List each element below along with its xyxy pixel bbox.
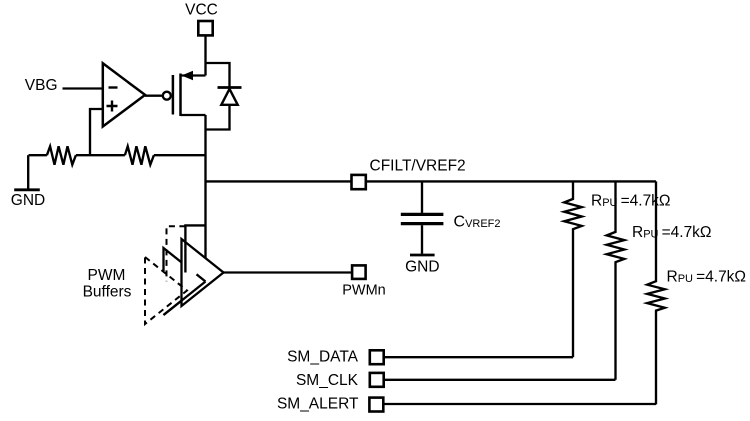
svg-text:SM_CLK: SM_CLK: [296, 372, 359, 389]
wire: body diode branch bottom: [206, 105, 230, 130]
svg-text:RPU =4.7kΩ: RPU =4.7kΩ: [591, 193, 671, 210]
PWM buffer (middle instance) bottom edge: [164, 282, 206, 316]
wire: GND leg to divider resistor: [29, 154, 47, 156]
SM_DATA terminal pin: [370, 350, 384, 364]
svg-text:VCC: VCC: [185, 2, 218, 19]
ground (capacitor): [410, 254, 435, 257]
wire: buffer output to PWMn pin: [224, 271, 353, 273]
wire: op-amp output to gate bubble: [145, 95, 163, 97]
op-amp U1 (VBG error amplifier): [103, 63, 145, 126]
wire: node to CFILT/VREF2 pin: [206, 180, 352, 182]
PWM buffer (back instance, dashed): [145, 257, 187, 324]
wire: RPU3 to SM_ALERT pin: [384, 403, 656, 405]
transistor Q1 source lead: [181, 74, 206, 76]
svg-text:RPU =4.7kΩ: RPU =4.7kΩ: [632, 224, 712, 241]
SM_CLK terminal pin: [370, 373, 384, 387]
op-amp non-inverting input marker: [107, 101, 118, 112]
transistor Q1 (PMOS) gate line: [172, 75, 175, 115]
wire: capacitor stub top: [421, 181, 423, 213]
pull-up resistor RPU3: [647, 181, 665, 404]
resistor (divider, lower): [47, 146, 76, 164]
svg-text:VBG: VBG: [25, 77, 58, 94]
body diode cathode bar: [218, 86, 242, 89]
pull-up resistor RPU1: [564, 181, 582, 357]
VCC terminal pin: [198, 21, 212, 35]
capacitor CVREF2 top plate: [401, 213, 444, 216]
wire: drain vertical to buffer input: [204, 115, 206, 260]
svg-text:RPU =4.7kΩ: RPU =4.7kΩ: [667, 269, 747, 286]
wire: non-inverting input to feedback node: [90, 109, 103, 155]
wire: VCC pin to PMOS source: [204, 36, 206, 76]
transistor Q1 drain lead: [181, 114, 206, 116]
wire: body diode branch top: [206, 63, 230, 88]
svg-text:PWM: PWM: [88, 267, 126, 284]
PWM buffer (front instance): [182, 239, 224, 306]
wire: buffer input jog (front): [185, 225, 205, 272]
svg-text:Buffers: Buffers: [83, 284, 132, 301]
PWM buffer (middle instance) apex segment: [197, 274, 206, 281]
wire: VBG to inverting input: [63, 87, 103, 89]
wire: CFILT/VREF2 pin to pull-up rail: [366, 180, 656, 182]
wire: buffer input jog (middle, dashed): [167, 226, 186, 281]
svg-text:GND: GND: [405, 259, 439, 276]
svg-text:GND: GND: [11, 192, 45, 209]
SM_ALERT terminal pin: [369, 398, 383, 412]
svg-text:CVREF2: CVREF2: [454, 214, 501, 231]
transistor Q1 channel line: [179, 74, 182, 117]
PWMn terminal pin: [352, 265, 366, 279]
wire: feedback resistor to PMOS drain node: [154, 154, 206, 156]
CFILT/VREF2 terminal pin: [352, 175, 366, 189]
wire: capacitor to ground: [421, 225, 423, 254]
wire: RPU1 to SM_DATA pin: [385, 356, 574, 358]
wire: divider mid node: [76, 154, 125, 156]
PMOS gate inversion bubble: [163, 92, 171, 100]
pull-up resistor RPU2: [607, 181, 625, 379]
resistor (divider, upper / feedback): [125, 146, 154, 164]
wire: RPU2 to SM_CLK pin: [385, 379, 616, 381]
transistor Q1 source arrow: [182, 71, 194, 81]
svg-text:SM_DATA: SM_DATA: [287, 349, 359, 366]
op-amp inverting input marker: [109, 86, 118, 88]
svg-text:SM_ALERT: SM_ALERT: [277, 396, 359, 413]
svg-text:CFILT/VREF2: CFILT/VREF2: [370, 158, 466, 175]
capacitor CVREF2 bottom plate: [401, 222, 444, 225]
ground (left): [27, 155, 29, 190]
svg-text:PWMn: PWMn: [342, 283, 386, 299]
body diode D1: [221, 89, 237, 105]
PWM buffer (middle instance): [164, 248, 206, 315]
